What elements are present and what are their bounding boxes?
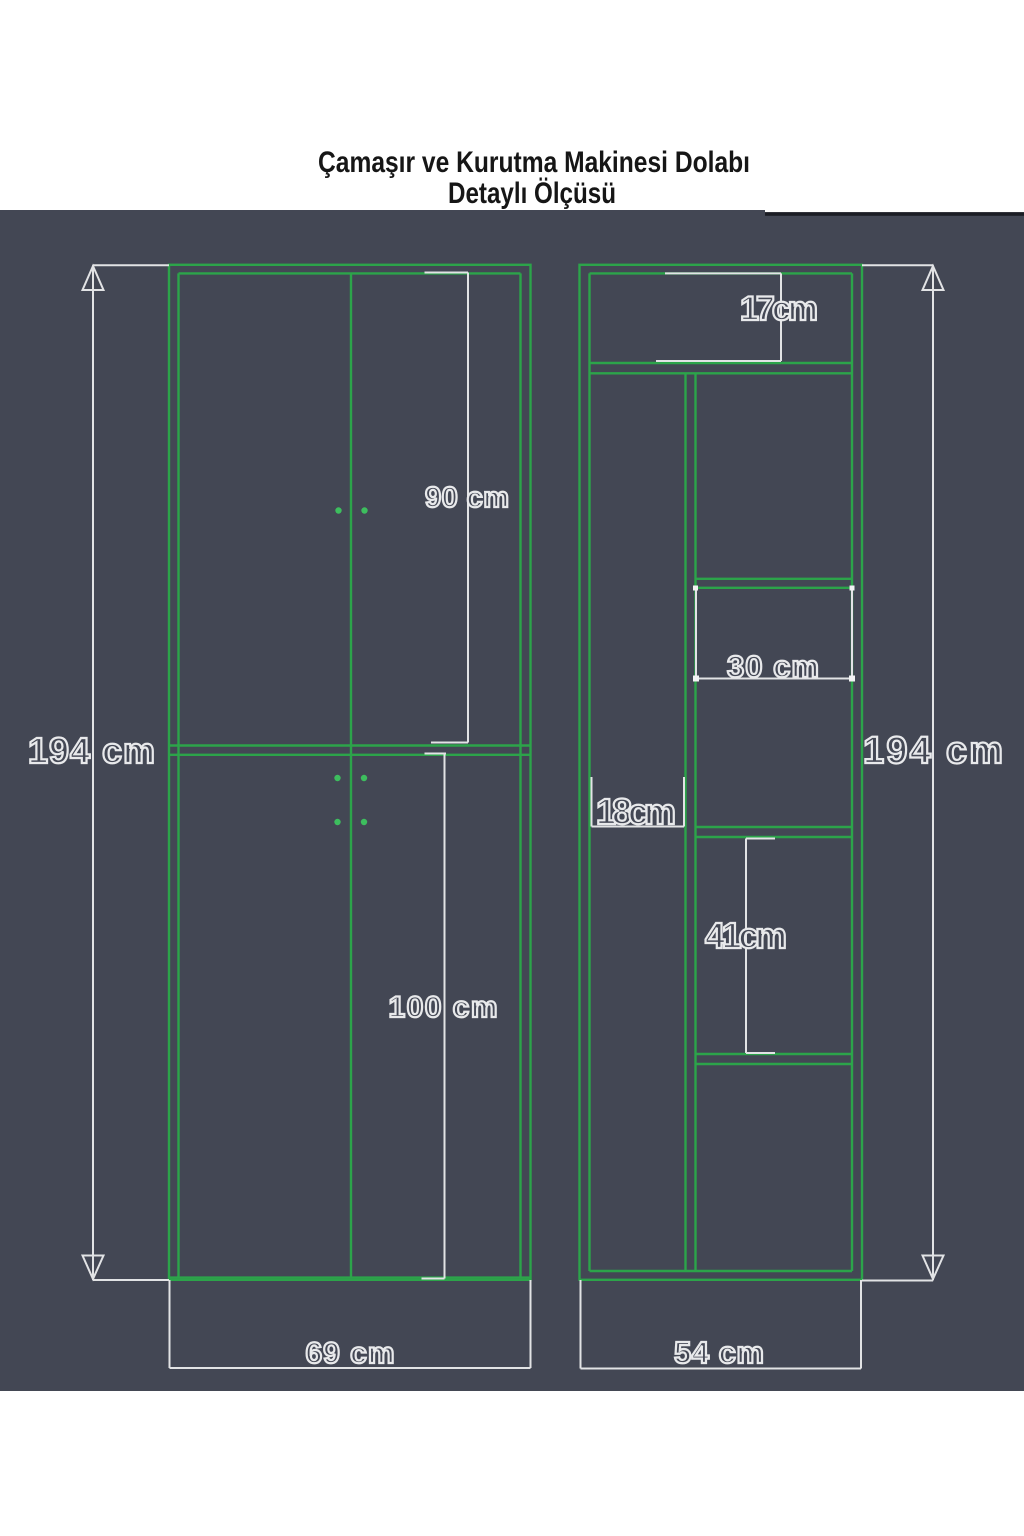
dim 18 left vertical [591,777,593,827]
right cabinet shelf A lower line [696,587,853,589]
dim 17 top tick [665,272,781,274]
dim 90 vertical [467,273,469,743]
dim 41 bottom tick [746,1052,775,1054]
left cabinet inner top rail [179,272,521,274]
dim 194 right top arrowhead [923,266,944,290]
svg-text:194 cm: 194 cm [863,730,1003,772]
dim 30 corner dots [693,586,855,682]
dim 41 top tick [746,838,775,840]
right cabinet shelf A upper line [696,578,853,580]
left cabinet inner left side [177,273,179,1278]
left cabinet outer box [169,265,531,1280]
right cabinet vertical divider left line [684,373,686,1271]
white sliver top right [765,210,1024,212]
svg-text:194 cm: 194 cm [28,730,155,771]
dim 194 left top horizontal [93,264,169,266]
dim 100 vertical [444,754,446,1279]
dim 194 right bottom arrowhead [923,1256,944,1280]
left cabinet door split line [350,273,352,1278]
right cabinet shelf C lower line [696,1063,853,1065]
dim 100 bottom tick [422,1278,445,1280]
right cabinet inner left side [588,273,590,1271]
dim 100 top tick [425,753,447,755]
right cabinet inner right side [851,273,853,1271]
dim 194 left top arrowhead [83,266,104,290]
bracket 69 left vertical [169,1280,171,1368]
left cabinet inner right side [519,273,521,1278]
door handle dots upper doors [334,507,367,825]
dim 17 bottom tick [656,360,781,362]
svg-text:54 cm: 54 cm [674,1335,764,1370]
dim 41 vertical [745,839,747,1054]
dark drawing panel [0,210,1024,1391]
right cabinet vertical divider right line [694,373,696,1271]
dim 30 bottom horizontal [696,678,852,680]
svg-text:69 cm: 69 cm [306,1337,395,1370]
svg-text:41cm: 41cm [705,915,787,956]
right cabinet top shelf lower line [590,372,853,374]
right cabinet inner bottom rail [590,1270,853,1272]
svg-text:90 cm: 90 cm [425,482,509,514]
svg-text:17cm: 17cm [740,290,818,328]
dim 30 left vertical [695,588,697,679]
dim 17 vertical [780,273,782,361]
dim 18 bottom horizontal [592,826,685,828]
dim 194 left bottom arrowhead [83,1256,104,1280]
bracket 54 bottom horizontal [581,1368,862,1370]
bracket 69 right vertical [530,1280,532,1368]
right cabinet top shelf upper line [590,362,853,364]
svg-text:Çamaşır ve Kurutma Makinesi Do: Çamaşır ve Kurutma Makinesi Dolabı [318,146,750,179]
dim 90 bottom tick [431,742,468,744]
right cabinet shelf B upper line [696,826,853,828]
left cabinet mid divider lower line [169,754,531,756]
dim 194 right bottom horizontal [862,1280,933,1282]
dim 194 right vertical [932,265,934,1280]
dim 194 left bottom horizontal [93,1279,169,1281]
right cabinet shelf B lower line [696,836,853,838]
svg-text:30 cm: 30 cm [727,649,819,684]
right cabinet shelf C upper line [696,1053,853,1055]
right cabinet inner top rail [590,272,853,274]
right cabinet outer box [580,265,863,1280]
left cabinet mid divider upper line [169,744,531,746]
svg-text:Detaylı Ölçüsü: Detaylı Ölçüsü [448,177,616,210]
bracket 54 left vertical [580,1280,582,1369]
dim 90 top tick [425,272,469,274]
svg-text:18cm: 18cm [596,791,676,832]
svg-text:100 cm: 100 cm [389,991,498,1024]
dim 30 right vertical [851,588,853,679]
dim 194 right top horizontal [862,264,933,266]
black strip top right [765,212,1024,216]
bracket 54 right vertical [860,1280,862,1369]
dim 194 left vertical [92,265,94,1280]
left cabinet bottom rail thickening [169,1276,531,1278]
dim 18 right vertical [683,777,685,827]
bracket 69 bottom horizontal [170,1367,531,1369]
